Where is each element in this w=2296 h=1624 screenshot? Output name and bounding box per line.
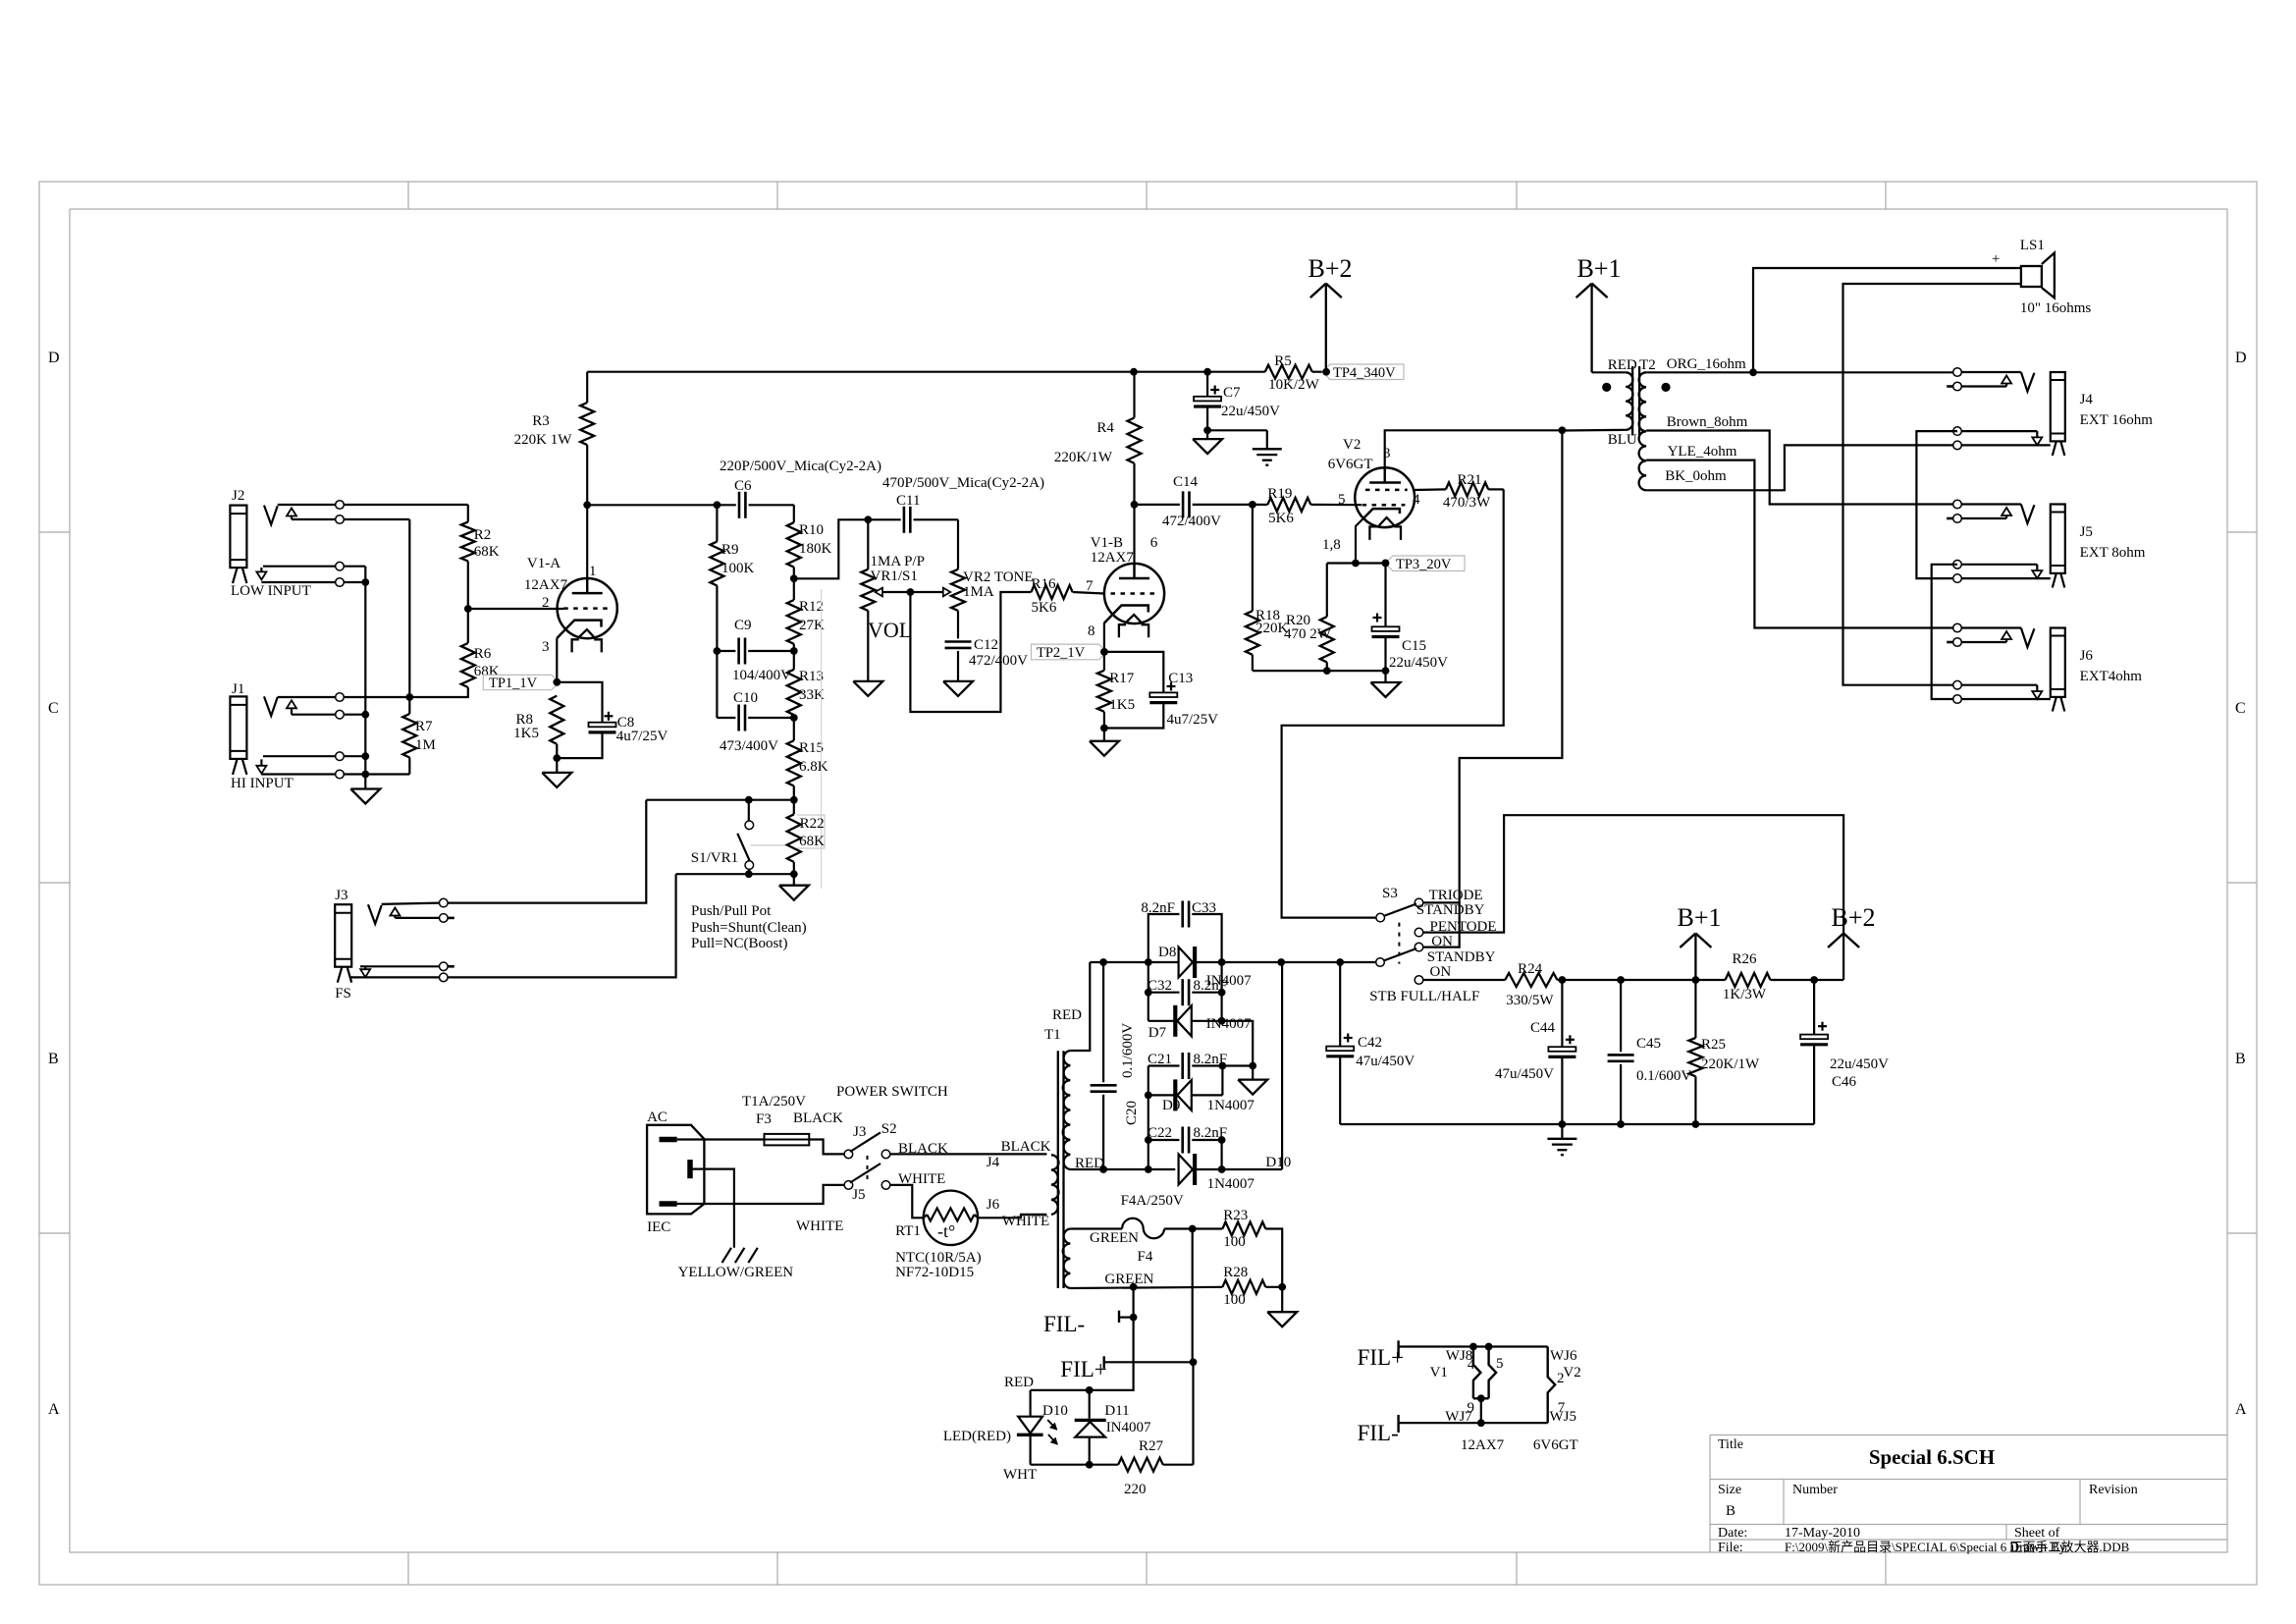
ground V1-B cathode	[1090, 729, 1119, 756]
capacitor C33	[1141, 900, 1221, 962]
svg-text:Number: Number	[1792, 1483, 1838, 1497]
svg-text:R10: R10	[799, 522, 824, 538]
svg-text:STANDBY: STANDBY	[1427, 949, 1496, 965]
svg-text:R24: R24	[1518, 961, 1543, 977]
svg-text:68K: 68K	[799, 834, 825, 849]
resistor R27	[1118, 1438, 1193, 1497]
wire T2 BK_0ohm to J4 sleeve	[1646, 445, 1953, 490]
capacitor C22	[1145, 1095, 1227, 1169]
svg-text:J5: J5	[2080, 524, 2093, 540]
resistor R2	[461, 505, 500, 609]
wire B+1 rail	[1559, 976, 1844, 984]
transformer T2	[1562, 357, 1670, 490]
capacitor C20	[1091, 962, 1140, 1169]
wire plate to S3 TRIODE contact	[1423, 430, 1563, 947]
svg-text:68K: 68K	[474, 544, 500, 560]
test point TP3_20V	[1382, 556, 1465, 572]
svg-text:EXT4ohm: EXT4ohm	[2080, 669, 2143, 684]
resistor R16	[1032, 576, 1104, 616]
wire J2 sleeve	[261, 562, 369, 586]
wire R10/R12 node to VR1	[790, 519, 868, 582]
wire R8/C8 bottom	[553, 732, 602, 762]
svg-text:5: 5	[1338, 492, 1346, 508]
svg-text:4u7/25V: 4u7/25V	[1167, 712, 1219, 728]
svg-text:12AX7: 12AX7	[1461, 1437, 1505, 1453]
svg-text:C21: C21	[1148, 1052, 1172, 1067]
svg-text:22u/450V: 22u/450V	[1389, 655, 1448, 671]
svg-text:C42: C42	[1358, 1035, 1382, 1051]
svg-text:D: D	[2235, 350, 2247, 366]
wire B+2 rail	[587, 368, 1326, 376]
svg-text:WJ5: WJ5	[1550, 1409, 1577, 1425]
svg-text:VOL: VOL	[868, 618, 912, 642]
svg-text:6: 6	[1150, 535, 1158, 551]
svg-text:WJ6: WJ6	[1550, 1348, 1577, 1364]
svg-text:R17: R17	[1109, 671, 1135, 686]
svg-text:WHT: WHT	[1003, 1467, 1037, 1483]
diode D10	[1070, 962, 1291, 1192]
wire input ground bus	[361, 567, 369, 789]
svg-text:J3: J3	[853, 1124, 866, 1140]
ground input bus	[350, 789, 380, 804]
svg-text:104/400V: 104/400V	[732, 668, 791, 683]
svg-text:1K/3W: 1K/3W	[1723, 987, 1767, 1002]
svg-text:NF72-10D15: NF72-10D15	[895, 1265, 974, 1280]
wire T2 ORG_16ohm to J4	[1646, 356, 1953, 376]
resistor R15	[787, 714, 828, 800]
wire J2 tip to R2	[278, 501, 468, 510]
wire J1 sleeve	[261, 752, 409, 779]
wire S3 PENTODE contact to B+2	[1423, 815, 1843, 980]
wire J1 ring	[292, 710, 365, 719]
svg-text:8.2nF: 8.2nF	[1194, 1125, 1228, 1141]
svg-text:F:\2009\新产品目录\SPECIAL 6\Specia: F:\2009\新产品目录\SPECIAL 6\Special 6 正面手工放大…	[1785, 1540, 2130, 1554]
svg-text:J6: J6	[987, 1197, 1000, 1213]
wire supply ground rail	[1340, 1120, 1814, 1128]
svg-text:6V6GT: 6V6GT	[1533, 1437, 1578, 1453]
svg-text:22u/450V: 22u/450V	[1830, 1056, 1889, 1072]
capacitor C21	[1148, 1052, 1256, 1079]
svg-text:POWER SWITCH: POWER SWITCH	[836, 1084, 948, 1100]
svg-text:B: B	[2235, 1051, 2246, 1067]
wire rectifier B+ rail	[1090, 958, 1375, 966]
svg-text:WHITE: WHITE	[898, 1171, 945, 1187]
resistor R28	[1222, 1265, 1286, 1308]
svg-text:FIL+: FIL+	[1358, 1345, 1404, 1370]
svg-text:TRIODE: TRIODE	[1429, 888, 1483, 903]
svg-text:T2: T2	[1639, 357, 1656, 373]
capacitor C42	[1326, 962, 1415, 1124]
svg-text:C6: C6	[734, 478, 752, 494]
wire C9 to C10	[714, 647, 721, 718]
svg-text:4: 4	[1468, 1357, 1475, 1373]
svg-text:1K5: 1K5	[513, 726, 539, 741]
svg-text:R4: R4	[1096, 420, 1114, 436]
earth ground supply	[1547, 1124, 1576, 1155]
svg-text:8.2nF: 8.2nF	[1141, 900, 1175, 916]
ground VR1	[853, 611, 882, 696]
svg-text:1,8: 1,8	[1322, 537, 1341, 553]
wire F3 to S2	[793, 1110, 844, 1154]
svg-text:R5: R5	[1274, 353, 1292, 369]
capacitor C9	[717, 618, 793, 683]
svg-text:B+1: B+1	[1677, 903, 1721, 932]
svg-text:D8: D8	[1158, 945, 1176, 960]
test point TP4_340V	[1322, 364, 1404, 381]
svg-text:17-May-2010: 17-May-2010	[1785, 1526, 1860, 1541]
jack J6	[1947, 623, 2142, 711]
svg-text:STANDBY: STANDBY	[1416, 902, 1485, 918]
svg-text:BLACK: BLACK	[793, 1110, 843, 1126]
wire V1-A grid node	[464, 605, 564, 613]
svg-text:IN4007: IN4007	[1206, 1016, 1252, 1032]
svg-text:8.2nF: 8.2nF	[1194, 1052, 1228, 1067]
svg-text:47u/450V: 47u/450V	[1356, 1054, 1415, 1069]
ground R22	[779, 874, 809, 900]
svg-text:LED(RED): LED(RED)	[943, 1429, 1011, 1444]
svg-text:1K5: 1K5	[1109, 697, 1135, 713]
potentiometer VR1	[861, 519, 925, 611]
wire RT1 to T1	[978, 1215, 1046, 1218]
wire V1-A cathode	[553, 638, 561, 685]
svg-text:1MA: 1MA	[963, 584, 994, 600]
triode V1-A	[524, 556, 617, 655]
svg-text:D10: D10	[1042, 1403, 1068, 1419]
wire V1-A plate	[583, 445, 591, 593]
svg-text:R3: R3	[532, 413, 550, 429]
jack J2	[230, 488, 310, 599]
svg-text:F4: F4	[1138, 1249, 1153, 1265]
resistor R12	[787, 578, 825, 651]
wire to C8	[557, 682, 602, 723]
svg-text:LS1: LS1	[2020, 238, 2045, 253]
svg-text:A: A	[2235, 1401, 2247, 1418]
ground R23/R28	[1267, 1287, 1297, 1326]
svg-text:D7: D7	[1148, 1025, 1167, 1041]
svg-text:Pull=NC(Boost): Pull=NC(Boost)	[691, 936, 787, 951]
svg-text:220K/1W: 220K/1W	[1701, 1056, 1760, 1072]
heater V1 12AX7	[1430, 1347, 1505, 1454]
svg-text:C12: C12	[974, 637, 998, 653]
svg-text:R27: R27	[1139, 1438, 1164, 1454]
resistor R6	[461, 609, 500, 698]
svg-text:R22: R22	[800, 816, 825, 832]
wire C11 row	[864, 515, 958, 568]
svg-text:J3: J3	[335, 888, 347, 903]
svg-text:Size: Size	[1718, 1483, 1741, 1497]
svg-text:B: B	[1726, 1503, 1735, 1519]
wire T2 YLE_4ohm to J6	[1646, 444, 1953, 628]
resistor R7	[402, 697, 436, 775]
power port B+2 top	[1308, 254, 1352, 372]
svg-text:RED: RED	[1004, 1375, 1034, 1390]
svg-text:330/5W: 330/5W	[1506, 993, 1554, 1008]
svg-text:R9: R9	[721, 542, 739, 558]
svg-text:R28: R28	[1223, 1265, 1248, 1280]
svg-text:0.1/600V: 0.1/600V	[1120, 1023, 1136, 1078]
svg-text:VR1/S1: VR1/S1	[871, 568, 918, 584]
svg-text:R7: R7	[415, 719, 433, 734]
wire C6 row	[587, 501, 794, 509]
diode D11	[1075, 1390, 1151, 1465]
svg-text:C10: C10	[733, 690, 758, 706]
svg-text:3: 3	[542, 639, 550, 655]
svg-text:C: C	[48, 700, 59, 717]
svg-text:ORG_16ohm: ORG_16ohm	[1667, 356, 1746, 372]
svg-text:Special 6.SCH: Special 6.SCH	[1869, 1445, 1995, 1469]
wire V2 cathode 1,8	[1327, 518, 1390, 568]
svg-text:Revision: Revision	[2089, 1483, 2138, 1497]
earth ground near C7	[1207, 430, 1282, 464]
svg-text:R21: R21	[1457, 472, 1481, 488]
resistor R20	[1284, 564, 1334, 672]
wire J3 tip riser	[444, 800, 646, 903]
svg-text:V1-A: V1-A	[527, 556, 561, 571]
resistor R21	[1415, 472, 1504, 511]
resistor R10	[787, 505, 832, 578]
switch S2 power switch	[836, 1084, 948, 1203]
svg-text:HI INPUT: HI INPUT	[231, 776, 294, 791]
svg-text:B+2: B+2	[1308, 254, 1352, 283]
wire VR1 wiper to R16	[907, 588, 1032, 712]
pentode V2	[1322, 437, 1420, 553]
diode D9	[1145, 1066, 1255, 1114]
ground C7	[1193, 430, 1222, 454]
svg-text:+: +	[1992, 251, 2000, 267]
capacitor C10	[717, 690, 793, 754]
svg-text:TP4_340V: TP4_340V	[1333, 365, 1396, 381]
svg-text:1MA P/P: 1MA P/P	[871, 554, 925, 569]
wire LS1 - to J6	[1843, 284, 2021, 685]
svg-text:C32: C32	[1148, 978, 1172, 994]
svg-text:VR2 TONE: VR2 TONE	[963, 569, 1034, 585]
switch S3	[1369, 886, 1496, 1004]
wire IEC neutral to S2	[677, 1185, 844, 1234]
capacitor C46	[1800, 980, 1889, 1124]
svg-text:47u/450V: 47u/450V	[1495, 1066, 1554, 1082]
svg-text:S1/VR1: S1/VR1	[691, 850, 738, 866]
svg-text:T1A/250V: T1A/250V	[742, 1094, 806, 1110]
svg-text:J1: J1	[232, 681, 244, 697]
resistor R9	[710, 505, 754, 651]
svg-text:472/400V: 472/400V	[1162, 514, 1221, 529]
wire LS1 +	[1753, 268, 2021, 372]
svg-text:RED: RED	[1608, 357, 1637, 373]
svg-text:TP2_1V: TP2_1V	[1037, 645, 1086, 661]
svg-text:470/3W: 470/3W	[1443, 495, 1491, 511]
svg-text:R16: R16	[1032, 576, 1057, 592]
svg-text:R15: R15	[799, 740, 824, 756]
svg-text:Brown_8ohm: Brown_8ohm	[1667, 414, 1748, 430]
svg-text:F3: F3	[756, 1111, 772, 1127]
LED D10	[943, 1390, 1068, 1465]
svg-text:2: 2	[1557, 1371, 1565, 1386]
resistor R13	[787, 647, 825, 718]
svg-text:V1: V1	[1430, 1365, 1448, 1380]
wire T1 GREEN bottom	[1070, 1283, 1222, 1291]
svg-text:J5: J5	[852, 1187, 865, 1203]
svg-text:AC: AC	[647, 1110, 667, 1125]
svg-text:1M: 1M	[415, 737, 436, 753]
svg-text:FIL-: FIL-	[1043, 1312, 1085, 1336]
svg-text:-t°: -t°	[937, 1221, 955, 1241]
svg-text:EXT 8ohm: EXT 8ohm	[2080, 545, 2146, 561]
wire V2 plate to T2 BLU	[1385, 426, 1567, 482]
svg-text:C44: C44	[1530, 1020, 1556, 1036]
svg-text:GREEN: GREEN	[1090, 1230, 1139, 1246]
svg-text:22u/450V: 22u/450V	[1221, 404, 1280, 419]
resistor R19	[1253, 486, 1362, 526]
svg-text:R23: R23	[1223, 1208, 1248, 1223]
svg-text:IEC: IEC	[647, 1219, 670, 1235]
svg-text:TP1_1V: TP1_1V	[489, 676, 538, 691]
svg-text:V2: V2	[1343, 437, 1361, 453]
wire R18/R20/C15 bottom rail	[1253, 667, 1390, 675]
svg-text:STB FULL/HALF: STB FULL/HALF	[1369, 989, 1479, 1004]
wire J4 ring to J5 sleeve	[1916, 431, 1957, 578]
resistor R25	[1688, 980, 1760, 1124]
ground V2 cathode network	[1371, 671, 1401, 697]
svg-text:EXT 16ohm: EXT 16ohm	[2080, 412, 2154, 428]
svg-text:D10: D10	[1265, 1155, 1291, 1170]
diode D8	[1158, 945, 1252, 989]
svg-text:FIL+: FIL+	[1060, 1357, 1106, 1381]
svg-text:100: 100	[1223, 1292, 1246, 1308]
svg-text:1: 1	[589, 564, 597, 579]
heater V2 6V6GT	[1481, 1347, 1581, 1454]
capacitor C13	[1149, 671, 1218, 728]
capacitor C14	[1162, 474, 1221, 529]
svg-text:Date:: Date:	[1718, 1526, 1747, 1541]
wire R19 node to R18	[1252, 505, 1254, 611]
svg-text:BLU: BLU	[1608, 432, 1637, 448]
svg-text:J2: J2	[232, 488, 244, 504]
resistor R4	[1054, 372, 1142, 465]
wire R15/R22/S1 rail	[646, 796, 797, 804]
svg-text:220: 220	[1124, 1482, 1147, 1497]
svg-text:S3: S3	[1382, 886, 1398, 901]
wire C14 row	[1135, 501, 1256, 509]
svg-text:470P/500V_Mica(Cy2-2A): 470P/500V_Mica(Cy2-2A)	[882, 475, 1044, 491]
svg-text:C9: C9	[734, 618, 752, 633]
svg-text:5K6: 5K6	[1268, 511, 1294, 526]
speaker LS1	[1992, 238, 2092, 316]
svg-text:Push=Shunt(Clean): Push=Shunt(Clean)	[691, 920, 807, 936]
svg-text:C22: C22	[1148, 1125, 1172, 1141]
svg-text:ON: ON	[1430, 964, 1452, 980]
resistor R8	[513, 696, 563, 759]
svg-text:100K: 100K	[721, 561, 755, 576]
svg-text:RED: RED	[1052, 1007, 1082, 1023]
svg-text:C: C	[2235, 700, 2246, 717]
svg-text:Drawn By:: Drawn By:	[2009, 1541, 2070, 1555]
capacitor C45	[1608, 980, 1692, 1124]
svg-text:C14: C14	[1173, 474, 1199, 490]
wire T2 Brown_8ohm to J5	[1646, 414, 1953, 505]
svg-text:5: 5	[1496, 1356, 1504, 1372]
capacitor C11	[882, 475, 1044, 533]
svg-text:C33: C33	[1192, 900, 1216, 916]
ground rectifier	[1238, 1066, 1267, 1095]
svg-text:6.8K: 6.8K	[799, 759, 828, 775]
wire S2 to RT1 WHITE	[890, 1171, 946, 1218]
port FIL- left	[1043, 1311, 1138, 1336]
resistor R18	[1246, 608, 1289, 671]
svg-text:LOW INPUT: LOW INPUT	[231, 583, 311, 599]
svg-text:RT1: RT1	[895, 1223, 921, 1239]
power port B+1 top	[1576, 254, 1622, 372]
svg-text:100: 100	[1223, 1234, 1246, 1250]
svg-text:R2: R2	[474, 527, 492, 543]
jack J5	[1947, 500, 2146, 587]
svg-text:10K/2W: 10K/2W	[1268, 377, 1320, 393]
resistor R22	[787, 800, 825, 875]
wire T1 RED top to rectifier	[1070, 962, 1090, 1051]
svg-text:8.2nF: 8.2nF	[1194, 978, 1228, 994]
triode V1-B	[1086, 535, 1164, 639]
resistor R24	[1423, 961, 1563, 1008]
svg-text:F4A/250V: F4A/250V	[1121, 1193, 1184, 1209]
svg-text:220K/1W: 220K/1W	[1054, 450, 1113, 465]
resistor R23	[1193, 1208, 1283, 1287]
jack J1	[230, 681, 296, 791]
wire FS riser	[444, 874, 676, 977]
power port B+2	[1828, 903, 1875, 947]
svg-text:BLACK: BLACK	[898, 1141, 948, 1157]
svg-text:GREEN: GREEN	[1104, 1272, 1153, 1287]
svg-text:B: B	[48, 1051, 59, 1067]
svg-text:YLE_4ohm: YLE_4ohm	[1668, 444, 1737, 460]
svg-text:File:: File:	[1718, 1541, 1743, 1555]
wire J5 ring to J6 sleeve	[1932, 565, 1957, 699]
test point TP2_1V	[1032, 644, 1108, 661]
svg-text:Title: Title	[1718, 1437, 1743, 1452]
resistor R17	[1097, 652, 1135, 729]
wire V1-B cathode	[1100, 623, 1108, 656]
label VOL	[868, 618, 912, 642]
svg-text:R26: R26	[1732, 951, 1757, 967]
connector IEC AC inlet	[647, 1110, 704, 1235]
svg-text:BK_0ohm: BK_0ohm	[1665, 468, 1727, 484]
fuse F3	[677, 1094, 810, 1145]
svg-text:BLACK: BLACK	[1001, 1139, 1051, 1155]
potentiometer VR2	[910, 569, 1033, 611]
wire WHT row	[1003, 1461, 1118, 1483]
svg-text:J6: J6	[2080, 648, 2094, 664]
wire R21 to S3 pole	[1282, 489, 1504, 917]
svg-text:PENTODE: PENTODE	[1430, 919, 1497, 935]
resistor R3	[514, 372, 595, 448]
ground V1-A cathode	[542, 758, 571, 787]
svg-text:B+1: B+1	[1576, 254, 1621, 283]
svg-text:D9: D9	[1162, 1098, 1180, 1113]
label push/pull pot	[691, 903, 807, 951]
svg-text:12AX7: 12AX7	[524, 577, 568, 593]
fuse F4	[1070, 1193, 1196, 1265]
svg-text:IN4007: IN4007	[1106, 1420, 1151, 1435]
svg-text:TP3_20V: TP3_20V	[1396, 557, 1452, 572]
svg-text:6V6GT: 6V6GT	[1328, 457, 1373, 472]
svg-text:D: D	[48, 350, 60, 366]
capacitor C15	[1372, 564, 1449, 672]
svg-text:A: A	[48, 1401, 60, 1418]
svg-text:ON: ON	[1431, 934, 1453, 949]
capacitor C6	[720, 459, 881, 518]
svg-text:Sheet of: Sheet of	[2014, 1526, 2060, 1541]
svg-text:R25: R25	[1701, 1037, 1726, 1053]
port FIL- right	[1358, 1415, 1481, 1445]
svg-text:5K6: 5K6	[1032, 600, 1057, 616]
